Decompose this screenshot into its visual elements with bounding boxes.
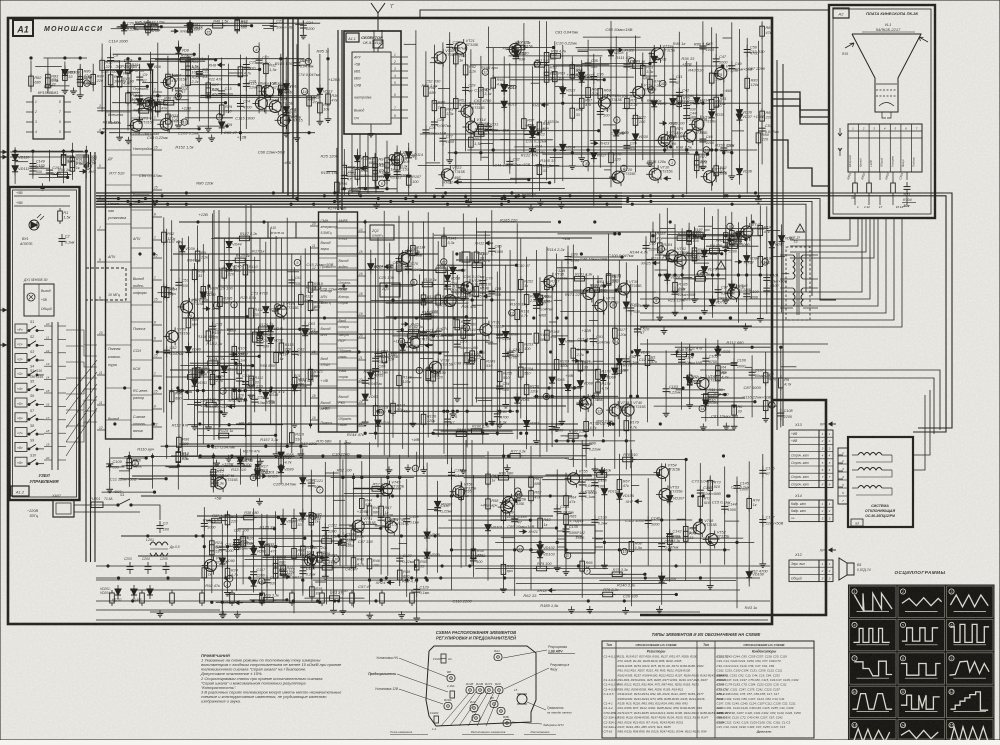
wire: [557, 530, 565, 532]
wire: [587, 40, 589, 172]
wire: [131, 321, 153, 323]
resistor R297: [342, 162, 356, 178]
resistor R77: [694, 152, 708, 168]
capacitor C10: [175, 84, 189, 96]
resistor R76: [677, 94, 691, 110]
wire: [220, 316, 247, 318]
wire: [358, 295, 367, 297]
resistor R229: [273, 560, 287, 576]
capacitor C129: [413, 585, 429, 597]
resistor R233: [292, 545, 306, 561]
wire: [772, 256, 785, 258]
ground: [125, 137, 132, 144]
transistor VT41: [671, 251, 698, 269]
wire: [635, 36, 637, 173]
wire: [364, 220, 366, 419]
test point 14: [699, 405, 705, 411]
resistor R167: [545, 277, 561, 293]
wire: [342, 459, 344, 607]
ground: [224, 589, 231, 596]
wire: [30, 61, 32, 93]
wire: [153, 239, 163, 241]
transistor VT49: [377, 481, 404, 499]
resistor R98: [192, 267, 206, 283]
wire: [112, 102, 225, 104]
wire: [733, 343, 735, 423]
resistor R129: [373, 403, 389, 419]
wire: [364, 152, 366, 187]
capacitor C86: [507, 348, 521, 360]
resistor R159: [419, 278, 437, 287]
wire: [682, 254, 697, 256]
diode VD12: [283, 103, 299, 117]
capacitor C104: [678, 355, 702, 367]
test point 13: [310, 513, 316, 519]
tuner pin СИВ: [391, 84, 401, 86]
wire: [228, 218, 230, 402]
capacitor C53: [175, 278, 189, 290]
wire: [669, 468, 671, 581]
diode VD107: [667, 492, 685, 506]
capacitor C106: [731, 358, 747, 370]
wire: [546, 247, 548, 452]
scattered reference labels: [101, 27, 771, 610]
wire: [227, 546, 322, 548]
wire: [262, 557, 321, 559]
capacitor C81: [488, 287, 502, 299]
resistor R88: [548, 50, 567, 59]
node ХН25: [715, 237, 735, 242]
resistor R187: [687, 228, 703, 244]
capacitor C111: [210, 468, 228, 480]
bus from tuner down: [351, 134, 353, 193]
wire: [672, 46, 674, 159]
capacitor C2: [59, 234, 75, 246]
wire: [678, 235, 761, 237]
resistor R65: [570, 65, 584, 81]
wire: [585, 274, 587, 467]
resistor R124: [205, 357, 225, 366]
wire: [358, 425, 367, 427]
wire: [207, 55, 209, 125]
wire: [131, 424, 153, 426]
resistor R109: [237, 361, 253, 377]
wire: [155, 59, 216, 61]
diode VD83: [687, 375, 703, 389]
wire: [228, 64, 230, 114]
resistor R182: [587, 284, 606, 293]
oscillogram waveform 11: [898, 686, 945, 717]
diode VD49: [268, 322, 284, 336]
resistor R201: [645, 353, 657, 369]
ground: [723, 423, 730, 430]
wire: [437, 241, 439, 437]
diode VD27: [591, 149, 607, 163]
resistor R280: [495, 471, 514, 480]
ground: [643, 302, 650, 309]
wire: [664, 48, 666, 153]
module label a3: [851, 519, 863, 526]
resistor R13: [350, 590, 355, 606]
transistor VT58: [690, 519, 717, 537]
diode VD22: [529, 127, 545, 141]
wire: [432, 233, 434, 423]
node ХН9: [501, 46, 519, 51]
wire: [438, 264, 517, 266]
capacitor C6: [163, 562, 170, 574]
wire: [699, 463, 701, 563]
wire: [599, 580, 736, 582]
paper noise overlay: [0, 0, 1, 1]
oscillogram waveform 5: [898, 619, 945, 650]
test point 5: [305, 58, 311, 64]
test point 4: [85, 163, 91, 169]
wire: [456, 275, 458, 395]
test point 11: [660, 80, 666, 86]
wire: [399, 543, 407, 545]
resistor R74: [648, 76, 661, 92]
wire: [678, 32, 680, 180]
capacitor C127: [396, 554, 414, 566]
node ХН23: [591, 141, 611, 146]
resistor R15: [410, 590, 415, 606]
resistor R37: [136, 104, 155, 113]
node ХН20: [216, 404, 236, 409]
transistor VT45: [694, 375, 721, 393]
diode VD97: [300, 509, 316, 523]
wire: [510, 177, 614, 179]
wire: [336, 148, 338, 200]
wire: [746, 217, 748, 314]
resistor R17: [108, 72, 122, 88]
wire: [229, 72, 243, 74]
resistor R202: [687, 372, 700, 388]
resistor R192: [730, 228, 746, 244]
resistor R114: [274, 350, 288, 366]
test point 3: [259, 578, 265, 584]
resistor R143: [461, 286, 477, 302]
wire: [441, 430, 513, 432]
diode VD47: [263, 303, 279, 317]
wire: [387, 457, 389, 576]
ground: [496, 421, 503, 428]
capacitor C66: [372, 364, 388, 376]
resistor R197: [690, 228, 710, 237]
oscillogram waveform 6: [947, 619, 994, 650]
wire: [392, 270, 394, 438]
switch S5: [15, 379, 44, 392]
wire: [285, 57, 287, 130]
wire: [369, 442, 371, 604]
wire: [176, 99, 189, 101]
wire: [102, 128, 199, 130]
wire: [353, 473, 355, 607]
wire: [127, 59, 129, 131]
capacitor C117: [250, 567, 266, 579]
ground: [647, 160, 654, 167]
node ХН11: [474, 241, 493, 246]
diode VD38: [736, 165, 752, 179]
resistor R30: [238, 64, 252, 80]
wire: [139, 478, 153, 480]
wire: [581, 440, 583, 598]
ground: [291, 421, 298, 428]
diode VD17: [501, 81, 517, 95]
resistor R194: [758, 223, 773, 239]
transistor VT42: [663, 247, 690, 265]
test point 12: [596, 408, 602, 414]
node ХН18: [536, 588, 556, 593]
wire: [300, 567, 354, 569]
ground: [191, 423, 198, 430]
capacitor C69: [405, 246, 423, 258]
wire: [578, 51, 589, 53]
diode VD77: [709, 296, 725, 310]
wire: [131, 409, 153, 411]
wire: [319, 275, 338, 277]
wire: [419, 274, 421, 467]
resistor R198: [693, 272, 711, 281]
transistor VT15: [506, 40, 533, 58]
wire: [302, 449, 304, 593]
wire: [710, 171, 724, 173]
node ХН25: [471, 294, 491, 299]
ground: [598, 468, 605, 475]
wire: [438, 527, 556, 529]
test point 3: [583, 160, 589, 166]
diode VD103: [537, 548, 555, 562]
capacitor C93: [627, 303, 641, 315]
resistor R79: [709, 70, 723, 86]
capacitor C103: [663, 384, 681, 396]
diode VD50: [268, 334, 284, 348]
wire: [406, 479, 408, 597]
wire: [211, 237, 278, 239]
wire: [386, 316, 467, 318]
border frame of schematic sheet: [8, 18, 772, 624]
ground: [410, 420, 417, 427]
wire: [337, 311, 358, 313]
diode VD78: [729, 280, 745, 294]
capacitor C133: [511, 514, 527, 526]
transistor VT32: [405, 333, 432, 351]
bus horizontal bundle mid-left: [96, 192, 622, 194]
wire: [488, 27, 490, 181]
ground: [569, 162, 576, 169]
wire: [661, 463, 663, 605]
wire: [97, 229, 106, 231]
capacitor C17: [256, 56, 272, 68]
wire: [677, 518, 686, 520]
resistor R295: [55, 168, 71, 177]
resistor R150: [497, 369, 513, 385]
wire: [681, 342, 683, 410]
wire: [509, 55, 603, 57]
resistor R105: [218, 294, 234, 310]
wire: [430, 339, 490, 341]
IR receiver БУ1 box: [24, 284, 54, 316]
wire: [44, 419, 52, 421]
wire: [371, 300, 385, 302]
ground: [39, 183, 46, 190]
wire: [153, 426, 163, 428]
wire: [327, 48, 329, 116]
wire: [187, 236, 189, 399]
ground: [559, 418, 566, 425]
wire: [507, 84, 516, 86]
wire: [54, 174, 72, 176]
wire: [221, 524, 223, 611]
resistor R29: [219, 102, 233, 118]
wire: [531, 66, 533, 197]
wire: [701, 417, 744, 419]
test point 6: [257, 335, 263, 341]
resistor R147: [474, 249, 490, 265]
wire: [178, 240, 180, 452]
capacitor C89: [565, 252, 581, 264]
resistor R153: [519, 340, 535, 356]
wire: [280, 443, 282, 485]
wire: [425, 51, 427, 193]
diode VD81: [769, 238, 785, 252]
wire: [442, 42, 444, 186]
wire: [44, 405, 52, 407]
diode VD46: [257, 328, 273, 342]
resistor R168: [545, 327, 561, 343]
resistor R179: [624, 418, 640, 434]
node ХН17: [197, 370, 217, 375]
test point 3: [274, 304, 280, 310]
resistor R287: [78, 74, 92, 90]
wire: [496, 272, 498, 436]
wire: [310, 247, 319, 249]
wire: [570, 256, 622, 258]
resistor R75: [671, 124, 685, 140]
resistor R292: [70, 158, 84, 174]
capacitor C150: [29, 164, 45, 176]
wire: [701, 394, 725, 396]
layout part R(В): [503, 715, 511, 727]
wire: [320, 558, 326, 560]
capacitor C136: [579, 478, 599, 490]
oscillogram waveform 4: [850, 619, 897, 650]
resistor R193: [730, 232, 746, 248]
wire: [569, 459, 686, 461]
wire: [402, 299, 516, 301]
wire: [472, 304, 483, 306]
resistor R46: [210, 19, 229, 28]
capacitor C105: [702, 354, 718, 366]
wire: [434, 234, 491, 236]
wire: [408, 377, 422, 379]
ground: [731, 423, 738, 430]
diode VD61: [514, 393, 530, 407]
resistor R235: [310, 584, 324, 600]
switch S2: [15, 335, 44, 348]
capacitor C76: [444, 415, 458, 427]
wire: [780, 287, 793, 289]
ground: [762, 415, 769, 422]
diode VD34: [694, 94, 710, 108]
test point 6: [188, 312, 194, 318]
capacitor C71: [420, 328, 436, 340]
wire: [632, 118, 643, 120]
wire: [106, 387, 132, 389]
diode VD94: [280, 514, 296, 528]
test point 3: [564, 552, 570, 558]
capacitor C152: [341, 171, 357, 183]
diode VD26: [579, 72, 595, 86]
wire: [131, 117, 153, 119]
wire: [212, 214, 214, 404]
resistor R190: [692, 248, 708, 264]
wire: [614, 275, 616, 469]
resistor R1: [58, 208, 71, 224]
transistor VT36: [592, 297, 619, 315]
wire: [561, 435, 586, 437]
resistor R115: [279, 340, 294, 356]
wire: [780, 254, 793, 256]
wire: [426, 463, 428, 575]
wire: [416, 452, 418, 615]
wire: [131, 379, 153, 381]
resistor R106: [222, 265, 238, 281]
wire: [220, 259, 261, 261]
ground: [205, 125, 212, 132]
ground: [454, 395, 461, 402]
diode VD95: [309, 554, 325, 568]
resistor R226: [241, 534, 255, 550]
wire: [208, 370, 220, 372]
ground: [213, 460, 220, 467]
wire: [475, 568, 608, 570]
wire: [50, 85, 70, 87]
capacitor C50: [744, 45, 760, 57]
node ХН24: [572, 358, 592, 363]
diode VD93: [259, 537, 275, 551]
ground: [686, 401, 693, 408]
wire: [219, 434, 276, 436]
wire: [653, 45, 655, 174]
wire: [319, 257, 338, 259]
ground: [759, 560, 766, 567]
diode VD48: [263, 388, 279, 402]
capacitor C132: [470, 554, 486, 566]
resistor R20: [126, 90, 140, 106]
resistor R305: [395, 150, 411, 166]
ground: [568, 606, 575, 613]
wire: [505, 265, 507, 401]
wire: [482, 255, 484, 444]
wire: [172, 75, 248, 77]
wire: [319, 363, 338, 365]
yoke coil L1: [858, 453, 882, 456]
wire: [131, 359, 153, 361]
diode VD1: [115, 585, 121, 599]
resistor R177: [613, 325, 629, 341]
capacitor C26: [431, 117, 451, 129]
wire: [158, 104, 168, 106]
wire: [261, 514, 263, 597]
resistor R266: [580, 558, 594, 574]
resistor R18: [117, 74, 131, 90]
layout fan lines: [441, 692, 470, 726]
wire: [106, 419, 132, 421]
resistor R238: [241, 511, 260, 520]
wire: [750, 214, 752, 299]
capacitor C27: [439, 134, 455, 146]
resistor R303: [385, 155, 401, 171]
